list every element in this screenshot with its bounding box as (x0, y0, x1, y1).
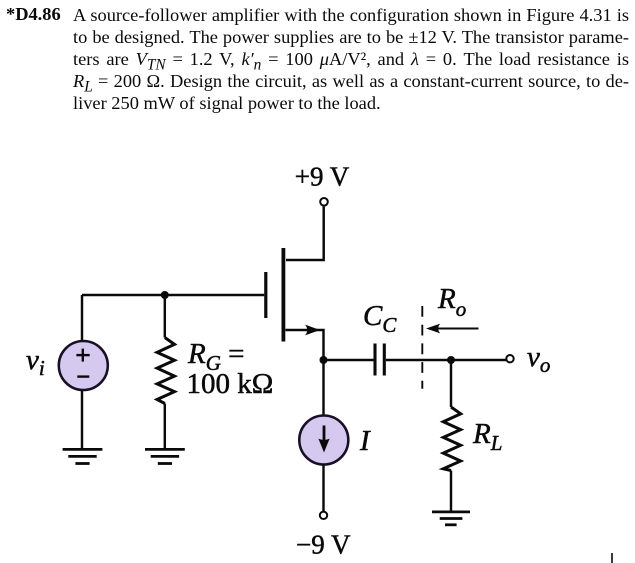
wire RG bottom (164, 404, 166, 451)
problem text line 1 (73, 4, 629, 26)
Ro arrow shaft (429, 328, 479, 330)
wire RG top (164, 295, 166, 338)
svg-text:vi: vi (26, 344, 45, 380)
problem text line 4 (73, 70, 629, 99)
source vi circle (59, 341, 108, 390)
wire vi top (81, 295, 83, 341)
svg-text:I: I (359, 425, 371, 457)
transistor M1 source wire (286, 330, 324, 360)
transistor M1 gate bar (264, 272, 267, 318)
node +9V terminal (320, 198, 328, 206)
wire drain to +9V (286, 207, 324, 260)
node -9V terminal (320, 512, 327, 519)
wire RL bottom (450, 471, 452, 513)
stray tick bottom right (611, 553, 613, 563)
vi minus sign (77, 375, 89, 377)
svg-text:vo: vo (527, 341, 550, 377)
capacitor CC right plate (383, 344, 386, 376)
node gate junction (161, 291, 169, 299)
svg-text:−9 V: −9 V (296, 530, 351, 560)
wire capacitor to output (386, 359, 507, 361)
node vo terminal (506, 355, 513, 362)
vi plus sign (76, 354, 89, 356)
current source arrow shaft (323, 426, 326, 444)
resistor RG (157, 338, 174, 404)
current source arrowhead (318, 439, 329, 453)
wire RL top (450, 360, 452, 407)
svg-text:100 kΩ: 100 kΩ (187, 368, 274, 400)
svg-text:Ro: Ro (437, 283, 466, 321)
transistor M1 source arrowhead (305, 325, 320, 336)
node source junction (320, 356, 328, 364)
resistor RL (443, 407, 460, 471)
node output junction (447, 356, 455, 364)
current source I circle (299, 416, 348, 465)
ground under vi (63, 449, 103, 463)
problem text line 5 (73, 92, 629, 114)
wire gate (82, 294, 264, 296)
svg-text:CC: CC (363, 300, 397, 337)
wire source node to capacitor (324, 359, 374, 361)
wire current source bottom (322, 465, 324, 513)
svg-text:+9 V: +9 V (295, 162, 350, 192)
transistor M1 channel bar (281, 248, 285, 342)
Ro arrowhead (426, 324, 440, 334)
problem number label (6, 4, 61, 25)
capacitor CC left plate (373, 344, 376, 376)
problem text line 3 (73, 48, 629, 77)
dashed Ro boundary line (421, 306, 423, 389)
problem text line 2 (73, 26, 629, 48)
wire vi bottom (81, 391, 83, 451)
wire current source top (322, 360, 324, 416)
ground under RL (432, 512, 470, 525)
ground under RG (145, 449, 185, 463)
svg-text:RL: RL (472, 418, 502, 455)
